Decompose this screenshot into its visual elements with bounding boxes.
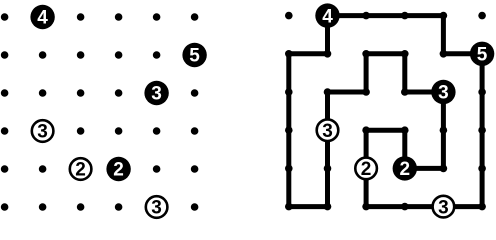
svg-text:2: 2	[75, 160, 86, 181]
svg-text:2: 2	[113, 160, 124, 181]
svg-text:3: 3	[322, 121, 333, 142]
svg-text:2: 2	[400, 159, 411, 180]
svg-text:3: 3	[438, 83, 449, 104]
svg-text:4: 4	[322, 6, 333, 27]
svg-text:2: 2	[361, 159, 372, 180]
svg-text:5: 5	[477, 45, 488, 66]
svg-text:5: 5	[189, 46, 200, 67]
svg-text:3: 3	[438, 197, 449, 218]
svg-text:3: 3	[37, 122, 48, 143]
svg-text:3: 3	[151, 198, 162, 219]
svg-text:4: 4	[37, 8, 48, 29]
svg-text:3: 3	[151, 84, 162, 105]
